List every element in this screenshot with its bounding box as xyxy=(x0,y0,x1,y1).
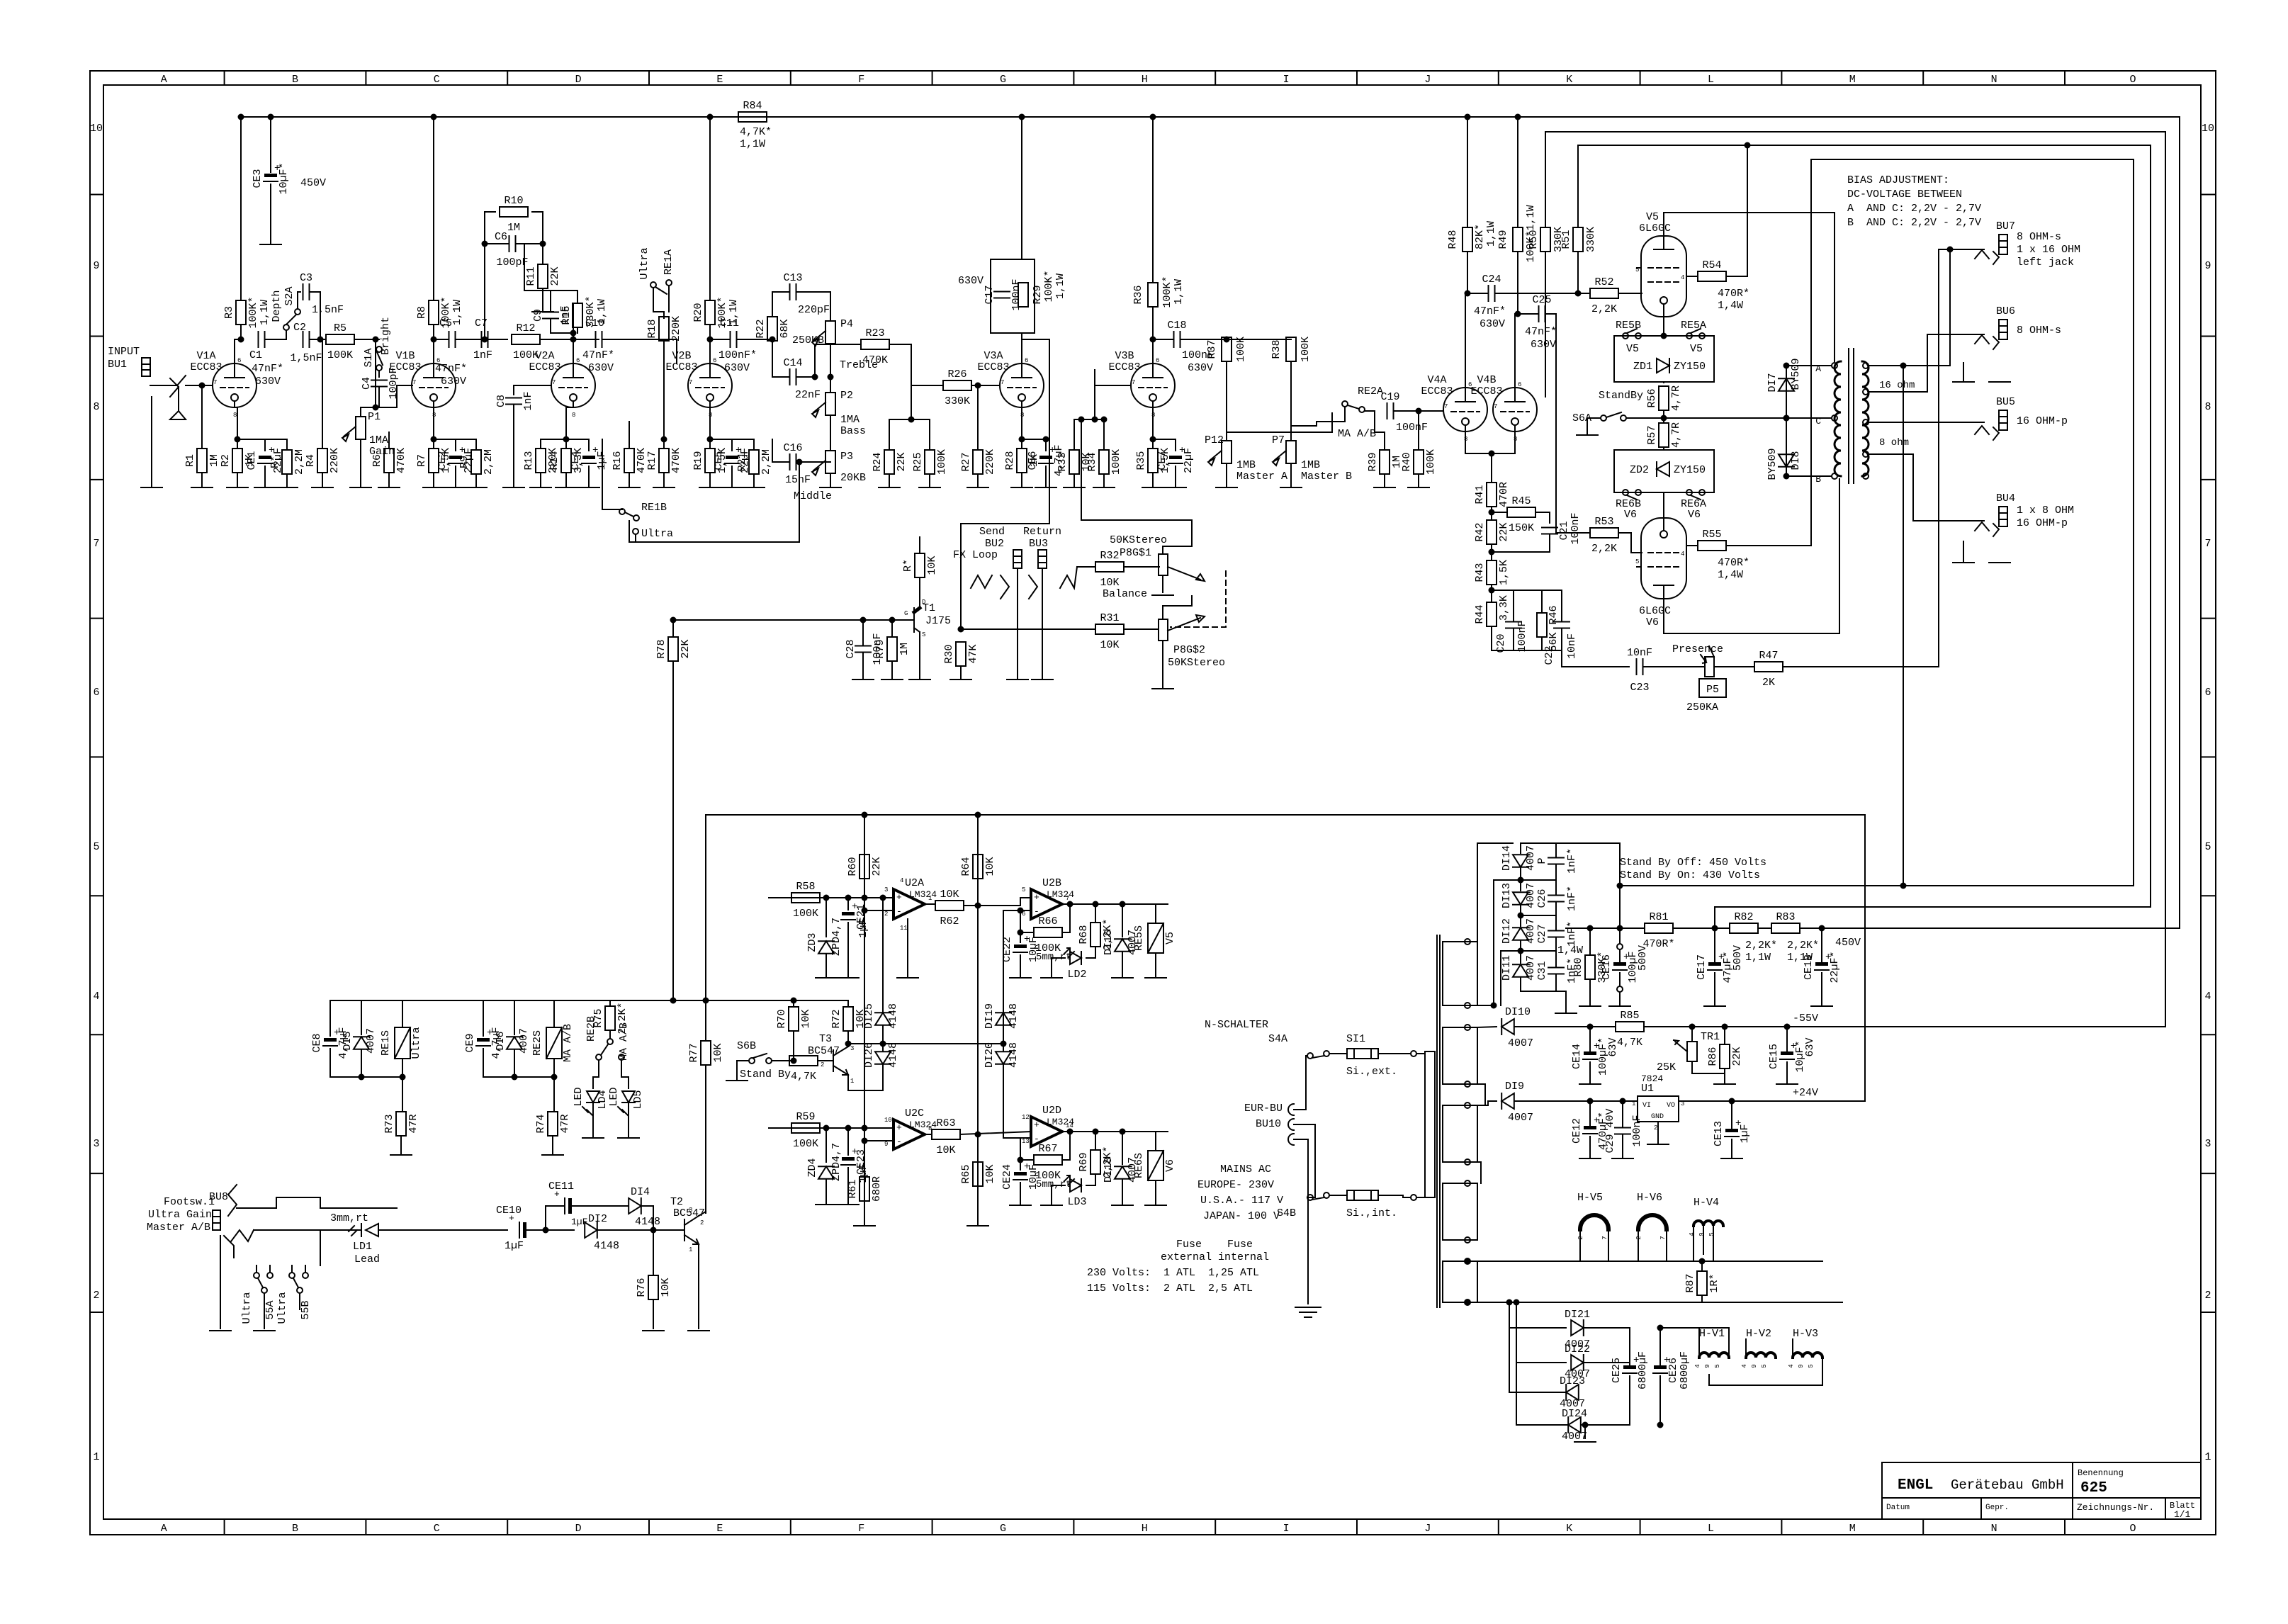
junction xyxy=(1416,409,1421,414)
junction xyxy=(1018,930,1023,935)
transistor T3 BC547 xyxy=(821,1045,854,1085)
diode DI5 xyxy=(354,1037,369,1049)
wire to R41 xyxy=(1491,453,1492,483)
junction xyxy=(1618,926,1623,931)
svg-text:LM324: LM324 xyxy=(909,889,937,900)
svg-text:10K: 10K xyxy=(926,556,938,575)
svg-text:22K: 22K xyxy=(1731,1047,1743,1066)
wire V5 plate to OT A xyxy=(1664,213,1835,361)
wire C5 out xyxy=(456,339,481,340)
svg-text:R36: R36 xyxy=(1132,285,1144,304)
wire BU10 pin2 xyxy=(1294,1124,1315,1197)
svg-text:J: J xyxy=(1424,74,1431,86)
svg-text:CE25: CE25 xyxy=(1611,1358,1623,1383)
wire CE16 top xyxy=(1619,928,1621,944)
svg-text:V6: V6 xyxy=(1164,1159,1176,1172)
svg-text:7: 7 xyxy=(1066,895,1069,902)
switch RE6B xyxy=(1616,490,1641,510)
svg-text:Stand By: Stand By xyxy=(740,1068,791,1081)
svg-text:5: 5 xyxy=(1808,1364,1815,1368)
winding H-V5 xyxy=(1580,1215,1608,1229)
ground xyxy=(1776,1083,1798,1085)
wire bus Vref xyxy=(864,815,865,1226)
capacitor C23 xyxy=(1627,647,1652,675)
svg-text:4: 4 xyxy=(2204,991,2211,1003)
wire R13 top xyxy=(540,439,541,449)
junction xyxy=(1583,1423,1588,1428)
ground xyxy=(312,487,333,488)
resistor R7 xyxy=(416,448,452,473)
junction xyxy=(1489,588,1494,593)
svg-text:T2: T2 xyxy=(670,1196,683,1208)
svg-text:4148: 4148 xyxy=(635,1216,660,1228)
svg-text:S4B: S4B xyxy=(1277,1207,1296,1219)
svg-text:50KStereo: 50KStereo xyxy=(1168,657,1225,669)
junction xyxy=(1618,884,1623,889)
junction xyxy=(269,115,274,120)
svg-text:2,2K*: 2,2K* xyxy=(1745,940,1777,952)
svg-text:10K: 10K xyxy=(712,1043,724,1062)
svg-text:-: - xyxy=(896,1137,902,1147)
resistor R17 xyxy=(646,448,682,473)
svg-text:5: 5 xyxy=(93,841,99,853)
wire node down xyxy=(375,339,376,407)
svg-text:1MA: 1MA xyxy=(369,434,388,446)
svg-text:5: 5 xyxy=(1022,886,1025,893)
resistor R33 xyxy=(1056,450,1093,474)
resistor R77 xyxy=(688,1041,724,1065)
junction xyxy=(373,337,378,342)
wire R33 bottom xyxy=(1073,474,1075,487)
resistor R59 xyxy=(791,1111,820,1150)
svg-text:R42: R42 xyxy=(1474,522,1486,541)
ground xyxy=(852,679,874,680)
capacitor C11 xyxy=(731,332,737,347)
wire DI8 branch xyxy=(1786,418,1787,476)
svg-text:LED: LED xyxy=(573,1087,585,1106)
switch S6B xyxy=(737,1040,772,1064)
junction xyxy=(1093,902,1098,907)
svg-text:7: 7 xyxy=(1001,379,1004,386)
svg-text:C17: C17 xyxy=(984,285,996,304)
svg-text:U2D: U2D xyxy=(1042,1105,1061,1117)
svg-text:C7: C7 xyxy=(475,317,488,329)
junction xyxy=(861,618,866,623)
wire CE26 top xyxy=(1659,1328,1661,1365)
wire V2A grid xyxy=(514,385,551,395)
wire CE7 top xyxy=(1153,439,1176,451)
wire R59 row xyxy=(769,1127,894,1129)
wire R11 bottom xyxy=(542,288,543,312)
svg-text:DC-VOLTAGE BETWEEN: DC-VOLTAGE BETWEEN xyxy=(1847,188,1962,201)
svg-text:R15: R15 xyxy=(560,305,573,325)
ground xyxy=(1953,381,1974,383)
svg-text:13: 13 xyxy=(1022,1138,1030,1145)
junction xyxy=(1588,1025,1593,1030)
wire DI22 out xyxy=(1584,1362,1630,1363)
junction xyxy=(1588,1099,1593,1104)
wire R25 bottom xyxy=(929,474,930,487)
wire S2A to C3 xyxy=(298,292,300,309)
wire LD2 gnd xyxy=(1052,958,1065,978)
svg-text:ZD3: ZD3 xyxy=(806,932,818,952)
svg-text:StandBy: StandBy xyxy=(1599,390,1643,402)
svg-text:22K: 22K xyxy=(896,452,908,471)
wire CE18 top xyxy=(1821,928,1822,962)
svg-text:GND: GND xyxy=(1651,1113,1664,1121)
wire master A to RE2A xyxy=(1227,413,1332,432)
svg-text:C13: C13 xyxy=(783,272,802,284)
resistor R29 xyxy=(1018,283,1028,307)
wire RE6S top xyxy=(1155,1132,1156,1151)
svg-text:T3: T3 xyxy=(819,1033,832,1045)
ground xyxy=(210,1330,231,1331)
tube V4B xyxy=(1470,374,1537,443)
svg-text:R29: R29 xyxy=(1032,285,1044,304)
secondary winding 5 xyxy=(1443,1261,1477,1302)
wire CE23 top xyxy=(847,1128,849,1155)
resistor R65 xyxy=(960,1162,996,1186)
svg-text:100K*: 100K* xyxy=(247,296,259,328)
svg-text:5: 5 xyxy=(1714,1364,1721,1368)
svg-text:P2: P2 xyxy=(840,390,853,402)
svg-text:Ultra: Ultra xyxy=(641,528,673,540)
svg-text:I: I xyxy=(1283,1523,1290,1535)
wire V3A out down xyxy=(1022,339,1049,462)
wire V3B cathode xyxy=(1152,407,1154,449)
svg-text:470R*: 470R* xyxy=(1642,938,1674,950)
svg-text:6: 6 xyxy=(1025,357,1028,364)
svg-text:7: 7 xyxy=(1659,1236,1667,1239)
svg-text:R54: R54 xyxy=(1702,259,1721,271)
junction xyxy=(797,460,802,465)
ground xyxy=(141,487,162,488)
wire MA relay bus xyxy=(483,1076,554,1078)
svg-text:E: E xyxy=(716,74,723,86)
svg-text:BIAS ADJUSTMENT:: BIAS ADJUSTMENT: xyxy=(1847,174,1949,186)
primary terminal 2 xyxy=(1411,1195,1416,1200)
wire 450V right vertical xyxy=(2179,117,2180,928)
svg-text:6800µF: 6800µF xyxy=(1679,1351,1691,1389)
svg-text:B: B xyxy=(292,74,298,86)
wire R48 to V4A plate xyxy=(1465,252,1467,388)
resistor R42 xyxy=(1474,520,1510,544)
svg-text:ENGL: ENGL xyxy=(1898,1477,1933,1494)
wire winding jog 1 xyxy=(1467,1084,1485,1105)
label box P5 xyxy=(1699,679,1726,697)
svg-text:4148: 4148 xyxy=(594,1240,619,1252)
wire DI26 bottom xyxy=(882,1064,884,1090)
wire R56 R57 xyxy=(1663,410,1664,423)
wire R21 bottom xyxy=(753,474,755,487)
svg-text:2: 2 xyxy=(93,1290,99,1302)
junction xyxy=(1489,550,1494,555)
capacitor C1 xyxy=(259,332,265,347)
svg-text:R31: R31 xyxy=(1100,612,1119,624)
svg-text:100K: 100K xyxy=(1235,337,1247,362)
svg-text:G: G xyxy=(904,610,908,617)
diode DI19 xyxy=(996,1013,1011,1025)
svg-text:V3B: V3B xyxy=(1115,350,1134,362)
svg-text:P5: P5 xyxy=(1706,684,1719,696)
svg-text:ECC83: ECC83 xyxy=(529,361,560,373)
fuse SI2 xyxy=(1347,1190,1378,1200)
svg-text:CE4: CE4 xyxy=(570,451,582,470)
svg-text:7: 7 xyxy=(1444,403,1448,410)
svg-text:ECC83: ECC83 xyxy=(665,361,697,373)
wire CE17 top xyxy=(1714,907,1715,962)
resistor R46 xyxy=(1537,613,1547,637)
svg-text:C8: C8 xyxy=(495,395,507,407)
wire S6A to node xyxy=(1626,417,1664,419)
svg-text:R48: R48 xyxy=(1447,230,1459,249)
wire DI2 to T2 xyxy=(597,1229,684,1231)
svg-text:Master A: Master A xyxy=(1236,470,1287,483)
junction xyxy=(571,331,576,336)
svg-text:Ultra: Ultra xyxy=(241,1292,253,1324)
wire C29 bottom xyxy=(1622,1134,1623,1158)
svg-text:55B: 55B xyxy=(300,1300,312,1319)
junction xyxy=(1018,1158,1023,1163)
wire R72 top xyxy=(847,1000,849,1007)
wire bias bus top xyxy=(1492,590,1562,591)
svg-text:BU2: BU2 xyxy=(985,538,1004,550)
junction xyxy=(708,115,713,120)
switch RE5B xyxy=(1616,320,1641,339)
wire R79 bottom xyxy=(891,661,893,680)
svg-text:R72: R72 xyxy=(830,1009,842,1028)
svg-text:R*: R* xyxy=(902,559,914,572)
wire R16 bottom xyxy=(629,473,630,487)
junction xyxy=(846,1126,851,1131)
svg-text:R7: R7 xyxy=(416,454,428,467)
ground xyxy=(1989,381,2010,383)
svg-text:R22: R22 xyxy=(755,319,767,338)
wire CE17 bottom xyxy=(1714,973,1715,1006)
wire RE6S bottom xyxy=(1155,1180,1156,1205)
switch S1A bright xyxy=(363,317,392,371)
wire RE1S top xyxy=(402,1000,403,1027)
capacitor C3 xyxy=(300,272,312,300)
wire CE8 bottom xyxy=(329,1049,331,1077)
wire R80 bottom xyxy=(1589,979,1591,1006)
svg-text:220pF: 220pF xyxy=(798,304,830,316)
resistor R35 xyxy=(1135,448,1171,473)
wire DI16 bottom xyxy=(1122,952,1123,978)
contact BU8 tip xyxy=(228,1185,237,1216)
svg-text:R9: R9 xyxy=(458,456,470,468)
capacitor C24 xyxy=(1482,274,1501,301)
wire DI14 DI13 xyxy=(1520,867,1521,891)
wire DI5 top xyxy=(361,1000,362,1034)
wire B+ standby rail xyxy=(1620,885,2134,886)
capacitor CE13 xyxy=(1713,1118,1751,1146)
junction xyxy=(1224,337,1229,342)
svg-text:CE15: CE15 xyxy=(1768,1044,1780,1069)
ground xyxy=(1011,487,1032,488)
wire Rx bottom xyxy=(286,474,288,487)
relay box RE5 xyxy=(1614,336,1714,382)
wire C9 bottom xyxy=(551,319,573,333)
ground xyxy=(423,487,444,488)
wire CE22 top xyxy=(1020,932,1021,942)
wire R39 top xyxy=(1375,411,1385,450)
wire DI6 top xyxy=(514,1000,515,1034)
svg-text:10nF: 10nF xyxy=(1566,633,1578,659)
wire BU8 ring row xyxy=(254,1229,360,1231)
svg-text:H: H xyxy=(1142,74,1148,86)
resistor R83 xyxy=(1771,911,1800,933)
switch S6A xyxy=(1572,412,1626,424)
fuse SI1 xyxy=(1347,1049,1378,1059)
svg-text:ZD1: ZD1 xyxy=(1633,361,1652,373)
svg-text:R44: R44 xyxy=(1474,604,1486,624)
tube V1B xyxy=(389,350,456,419)
potentiometer P12 xyxy=(1208,441,1232,466)
svg-text:4007: 4007 xyxy=(1508,1037,1533,1049)
svg-text:C28: C28 xyxy=(845,639,857,658)
svg-text:DI5: DI5 xyxy=(342,1031,354,1050)
potentiometer P4 xyxy=(812,321,835,346)
wire relay supply rail xyxy=(706,814,1865,816)
svg-text:V6: V6 xyxy=(1624,509,1637,521)
svg-text:Send: Send xyxy=(979,526,1005,538)
svg-text:C31: C31 xyxy=(1536,961,1548,980)
wire tap to DI9 xyxy=(1477,1101,1497,1105)
wire R75 top xyxy=(609,1000,611,1006)
svg-text:R73: R73 xyxy=(383,1114,395,1133)
wire RE1S bottom xyxy=(402,1059,403,1077)
wire gnd stub xyxy=(1584,1425,1586,1438)
resistor R39 xyxy=(1367,450,1403,474)
wire SI2 out xyxy=(1378,1195,1411,1197)
resistor R80 xyxy=(1572,951,1608,983)
svg-text:6: 6 xyxy=(713,357,716,364)
svg-text:450V: 450V xyxy=(300,177,326,189)
wire U2A gnd xyxy=(907,919,908,978)
capacitor CE11 xyxy=(548,1180,587,1227)
junction xyxy=(1518,913,1523,918)
LED LD4 xyxy=(573,1087,609,1115)
wire R78 top xyxy=(672,620,674,637)
junction xyxy=(543,1228,548,1233)
op-amp U2A xyxy=(894,877,937,919)
junction xyxy=(200,383,205,388)
wire ZD3 bottom xyxy=(825,954,827,978)
resistor R8 xyxy=(416,296,463,328)
svg-text:C22: C22 xyxy=(1543,645,1555,665)
svg-text:1: 1 xyxy=(928,895,932,902)
wire R67 right xyxy=(1062,1132,1070,1160)
ground xyxy=(1704,1005,1725,1007)
svg-text:R35: R35 xyxy=(1135,451,1147,470)
wire ultra relay bus xyxy=(330,1076,402,1078)
wire U1 gnd xyxy=(1657,1122,1659,1144)
svg-text:10K: 10K xyxy=(936,1144,955,1156)
svg-text:10K: 10K xyxy=(1100,577,1119,589)
svg-text:450V: 450V xyxy=(1835,937,1861,949)
wire BU8 tip row xyxy=(237,1197,397,1208)
svg-text:47K: 47K xyxy=(967,644,979,663)
svg-text:CE11: CE11 xyxy=(548,1180,574,1192)
junction xyxy=(1901,363,1906,368)
svg-text:S: S xyxy=(922,631,925,638)
junction xyxy=(1018,908,1023,913)
capacitor C22 xyxy=(1548,931,1564,937)
wire BU10 pin1 xyxy=(1294,1056,1307,1110)
capacitor CE10 xyxy=(496,1205,526,1252)
wire ultra sw down xyxy=(653,288,664,312)
wire U2B out xyxy=(1062,903,1168,905)
junction xyxy=(862,1139,867,1144)
wire to RE2A pole xyxy=(1317,407,1345,422)
switch RE2B xyxy=(585,1016,630,1061)
svg-text:C6: C6 xyxy=(495,231,507,243)
wire CE24 bottom xyxy=(1020,1183,1021,1205)
svg-text:R50: R50 xyxy=(1528,230,1540,249)
wire R50 top xyxy=(1545,132,1546,227)
capacitor CE4 xyxy=(570,445,608,470)
svg-text:1M: 1M xyxy=(898,643,911,655)
svg-text:47R: 47R xyxy=(559,1114,571,1133)
junction xyxy=(564,437,569,442)
wire R76 bottom xyxy=(653,1299,654,1329)
svg-text:H: H xyxy=(1142,1523,1148,1535)
jack BU5 xyxy=(1975,396,2015,440)
wire R33 top xyxy=(1074,419,1095,450)
diode DI26 xyxy=(875,1051,891,1064)
ground xyxy=(699,487,721,488)
junction xyxy=(1745,143,1750,148)
wire R18 top xyxy=(663,312,665,318)
svg-text:DI8: DI8 xyxy=(1790,451,1802,470)
svg-text:R21: R21 xyxy=(736,452,748,471)
svg-text:left jack: left jack xyxy=(2017,256,2074,269)
wire DI21 out xyxy=(1584,1327,1630,1329)
svg-text:4: 4 xyxy=(900,877,903,884)
wire C22 bottom xyxy=(1561,628,1562,650)
junction xyxy=(432,115,436,120)
svg-text:H-V5: H-V5 xyxy=(1577,1192,1603,1204)
svg-text:G: G xyxy=(1000,1523,1006,1535)
svg-text:1,4W: 1,4W xyxy=(1718,300,1743,312)
wire DI19 DI20 xyxy=(1003,1025,1004,1051)
wire tap to DI10 xyxy=(1477,1027,1497,1027)
svg-text:230 Volts: 1 ATL 1,25 ATL: 230 Volts: 1 ATL 1,25 ATL xyxy=(1087,1267,1259,1279)
diode DI6 xyxy=(507,1037,522,1049)
junction xyxy=(1465,1259,1470,1264)
wire C7 out xyxy=(488,339,507,340)
wire cap link xyxy=(1555,914,1557,930)
resistor R12 xyxy=(512,322,540,361)
svg-text:50KStereo: 50KStereo xyxy=(1110,534,1167,546)
svg-text:R27: R27 xyxy=(960,452,972,471)
wire CE24 top xyxy=(1020,1160,1021,1170)
wire T3 emitter xyxy=(848,1075,883,1090)
svg-text:47nF*: 47nF* xyxy=(1474,305,1506,317)
wire CE25 top xyxy=(1629,1328,1630,1365)
wire V6 screen xyxy=(1686,545,1698,546)
svg-text:ZY150: ZY150 xyxy=(1674,361,1706,373)
svg-text:4: 4 xyxy=(1689,1232,1696,1236)
junction xyxy=(708,437,713,442)
svg-text:P8G$2: P8G$2 xyxy=(1173,644,1205,656)
svg-text:DI13: DI13 xyxy=(1501,883,1513,908)
wire RE2S bottom xyxy=(553,1059,555,1077)
svg-text:A AND C: 2,2V - 2,7V: A AND C: 2,2V - 2,7V xyxy=(1847,203,1981,215)
switch 55B xyxy=(276,1265,312,1324)
wire R26 to V3A xyxy=(971,385,1000,386)
